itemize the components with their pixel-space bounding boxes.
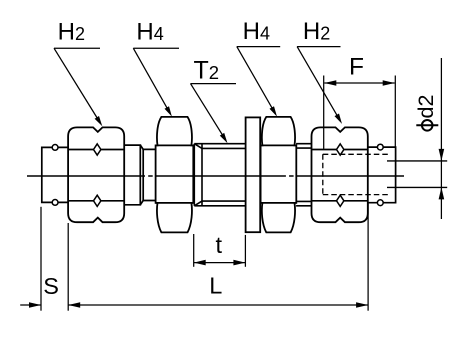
leader H4 right — [237, 47, 280, 109]
svg-text:S: S — [43, 273, 59, 299]
nut H2 left outline — [68, 127, 124, 222]
S dim line outside — [20, 304, 41, 306]
L dim arrow right — [356, 302, 368, 308]
leader H4 right arrowhead — [270, 106, 278, 116]
thread T2 section — [194, 144, 245, 206]
node: stub circle bottom — [52, 200, 58, 206]
svg-text:d2: d2 — [414, 95, 438, 119]
svg-text:F: F — [349, 53, 364, 80]
phi d2 dim arrow up — [439, 187, 445, 199]
L dim line — [68, 304, 368, 306]
node: stub circle top — [52, 145, 58, 151]
node: socket circle bottom — [377, 200, 383, 206]
node: socket circle top — [377, 144, 383, 150]
F dim arrow left — [324, 80, 336, 86]
F ext line right — [394, 76, 396, 147]
collar behind left nut — [124, 145, 156, 205]
L dim arrow left — [68, 302, 80, 308]
leader H2 right — [297, 47, 340, 116]
leader H4 left arrowhead — [165, 106, 172, 116]
bulkhead plate — [246, 117, 261, 232]
nut H2 left flat lines — [68, 149, 124, 151]
nut H4 right (panel nut) — [261, 117, 297, 232]
nut H4 left flat lines — [156, 144, 194, 146]
dimension phi d2 — [440, 58, 442, 219]
centerline — [27, 175, 404, 177]
S ext line left — [40, 207, 42, 311]
svg-text:t: t — [216, 232, 223, 258]
t dim line — [194, 262, 246, 264]
wire: left stub tube — [42, 147, 69, 202]
nut H2 right diamond bottom — [337, 195, 344, 206]
leader T2 arrowhead — [220, 133, 228, 143]
leader H2 right arrowhead — [335, 114, 343, 124]
nut H4 left (body hex) — [156, 117, 194, 232]
t ext line left — [193, 234, 195, 267]
nut H2 left diamond top — [94, 144, 101, 155]
F dim arrow right — [383, 80, 395, 86]
thread stub between H4 right and H2 right — [296, 144, 312, 206]
t dim arrow right — [233, 260, 245, 266]
nut H4 right flat lines — [261, 144, 297, 146]
S/L ext line shared — [67, 223, 69, 311]
leader T2 — [191, 84, 237, 135]
phi d2 dim arrow down — [439, 149, 445, 161]
t dim arrow left — [194, 260, 206, 266]
leader H2 left — [54, 48, 100, 118]
tube hidden dashed lines — [323, 154, 390, 194]
nut H2 right outline — [312, 127, 368, 222]
leader H2 left arrowhead — [95, 116, 103, 126]
socket on right end — [368, 147, 396, 203]
tube solid lines right — [387, 160, 447, 162]
F dim line — [324, 82, 394, 84]
leader H4 left — [133, 48, 179, 109]
phi symbol (rotated) — [422, 120, 433, 131]
svg-text:L: L — [209, 273, 222, 299]
nut H2 left diamond bottom — [94, 195, 101, 206]
t ext line right — [244, 235, 246, 267]
nut H2 right flat lines — [312, 149, 368, 151]
S dim arrow — [29, 302, 41, 308]
F ext line left — [323, 76, 325, 149]
L ext line right — [367, 203, 369, 311]
nut H2 right diamond top — [337, 144, 344, 155]
